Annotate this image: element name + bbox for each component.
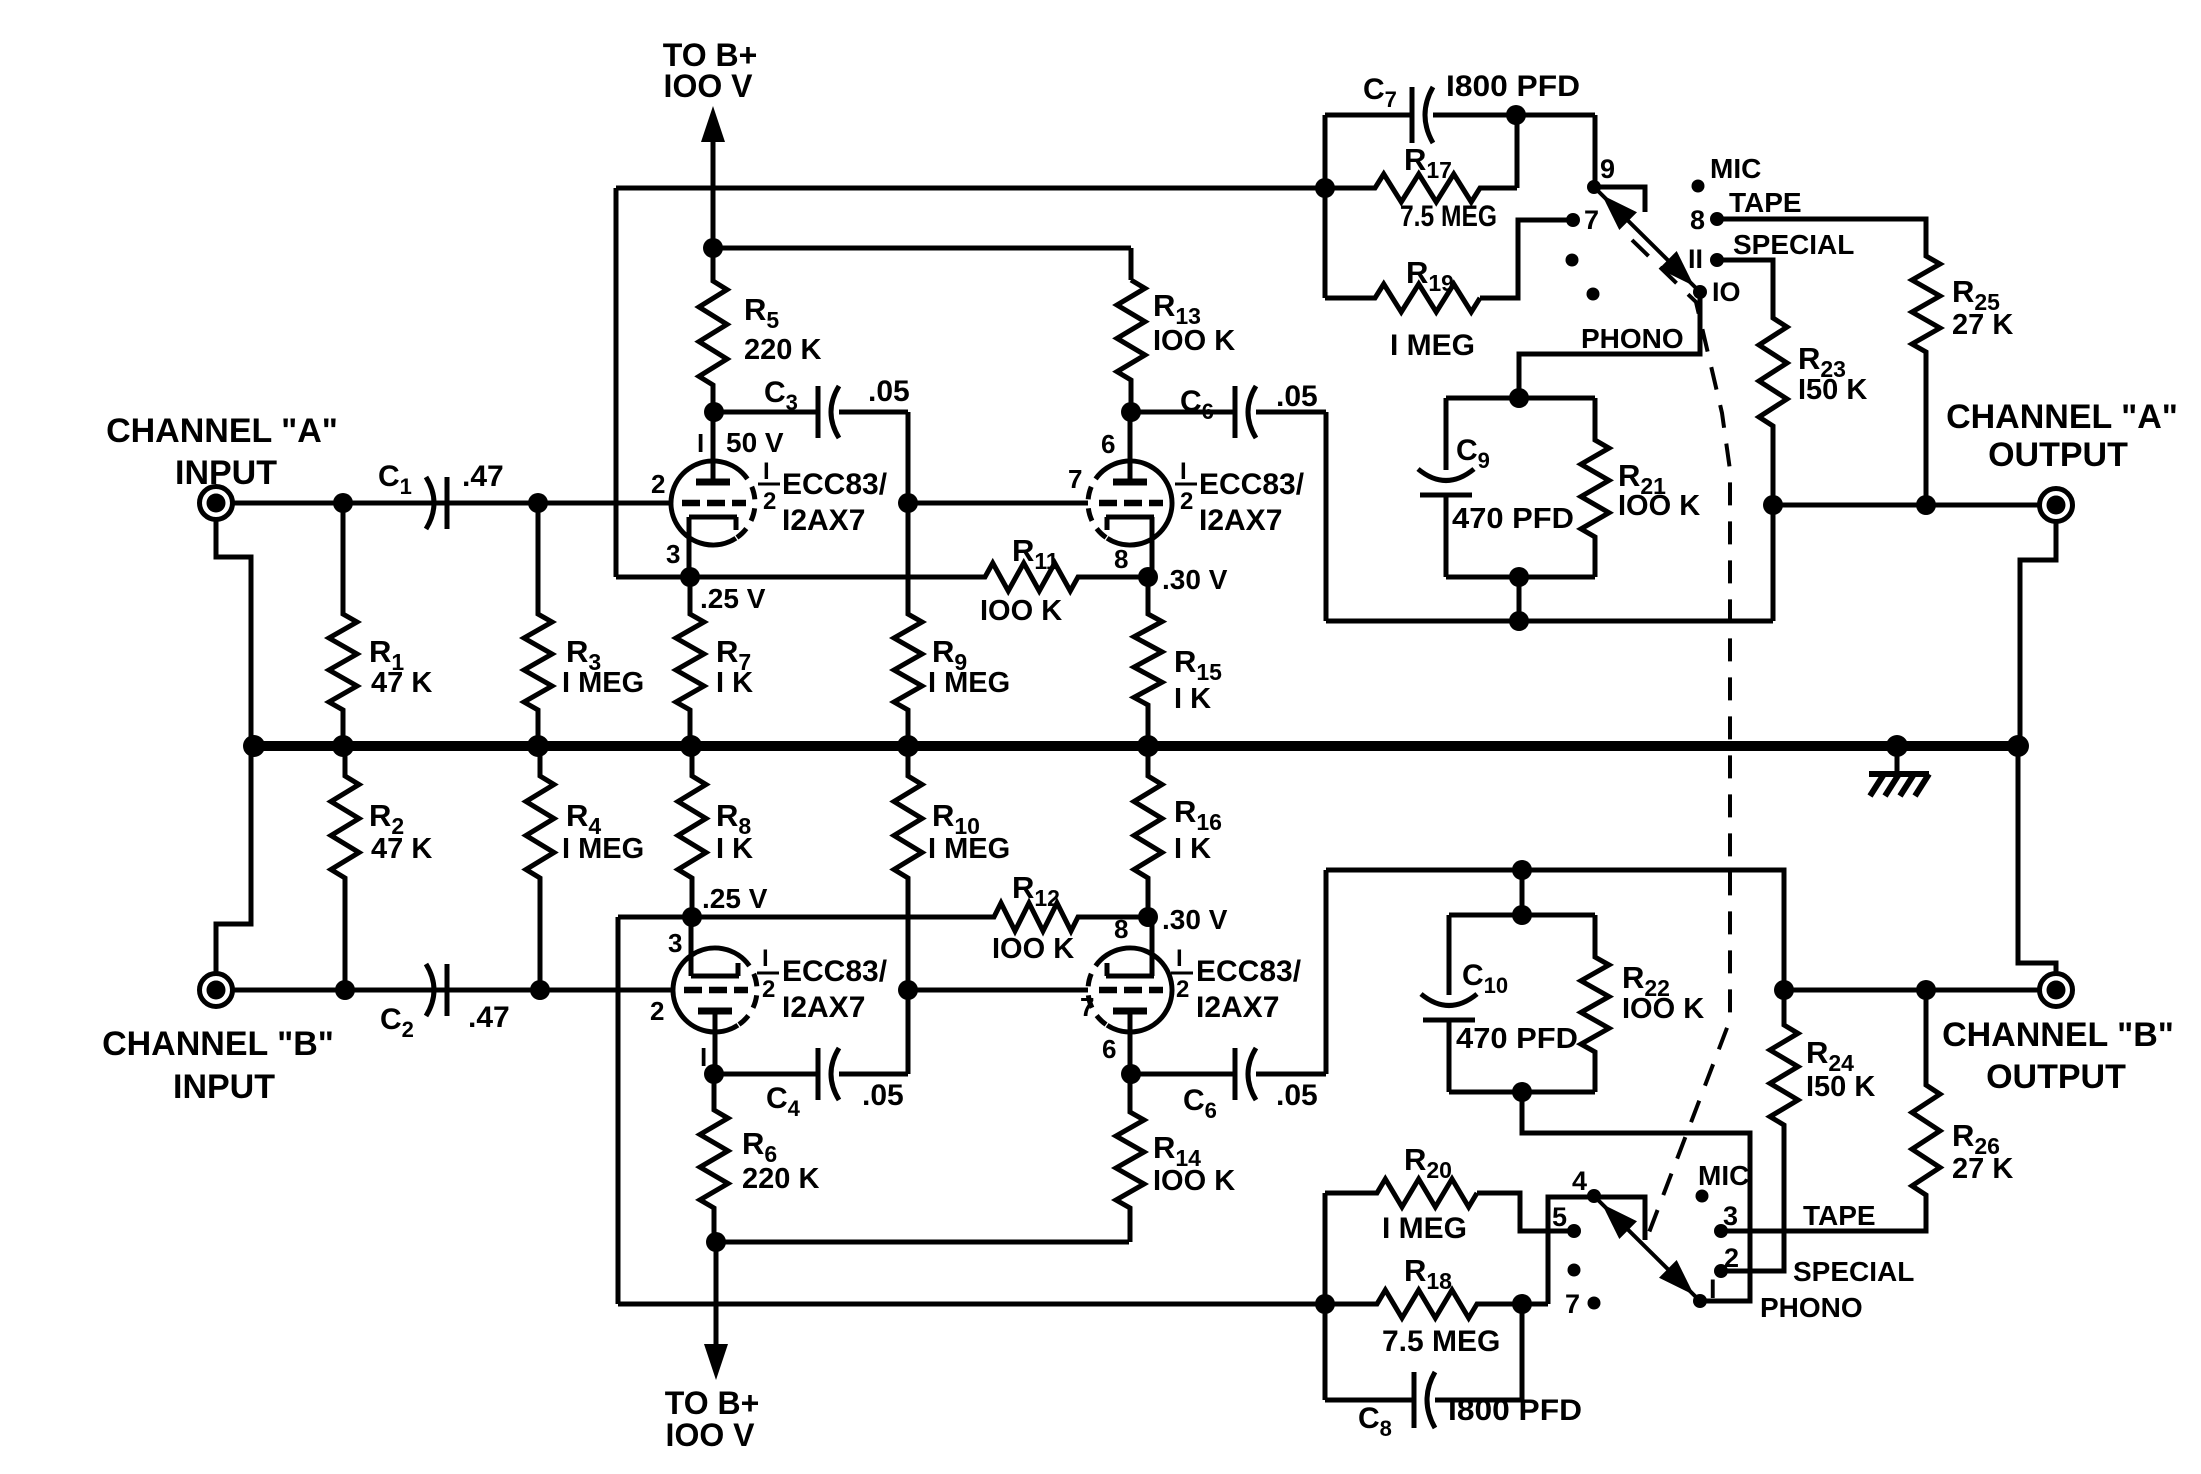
label C2 bbox=[380, 1003, 414, 1042]
label R6 value 220K bbox=[742, 1163, 819, 1195]
switch S1B contact 5 bbox=[1567, 1224, 1581, 1238]
label C10 value 470PFD bbox=[1456, 1023, 1578, 1055]
pin 2 V2A bbox=[650, 996, 664, 1026]
label C6 (B) bbox=[1183, 1084, 1217, 1123]
label C8 value 1800 PFD bbox=[1448, 1394, 1582, 1427]
label TAPE (B) bbox=[1803, 1200, 1876, 1231]
wire SPECIAL B to R24 bbox=[1721, 1125, 1784, 1271]
switch S1A contact MIC bbox=[1692, 180, 1705, 193]
label R8 bbox=[716, 798, 751, 839]
node cathode V1A (.25V) bbox=[680, 567, 700, 587]
wire feedback top rail A bbox=[616, 186, 1325, 191]
resistor R12 bbox=[984, 903, 1085, 931]
label C3 value .05 bbox=[868, 375, 910, 408]
node gnd symbol tap bbox=[1886, 735, 1908, 757]
node rail B / C10 stub bbox=[1512, 860, 1532, 880]
wire output rail A bbox=[1773, 503, 2040, 508]
resistor R13 bbox=[1117, 280, 1145, 412]
label C1 bbox=[378, 460, 412, 499]
label R13 value 100K bbox=[1153, 325, 1235, 357]
tube V2A cathode bbox=[691, 917, 739, 976]
svg-text:.47: .47 bbox=[462, 460, 504, 493]
svg-text:IOO K: IOO K bbox=[1153, 325, 1235, 357]
label contact 9 bbox=[1600, 154, 1615, 184]
svg-text:.30 V: .30 V bbox=[1162, 564, 1228, 595]
switch S1B contact 2 SPECIAL bbox=[1714, 1264, 1728, 1278]
label R15 bbox=[1174, 644, 1222, 685]
svg-text:I800 PFD: I800 PFD bbox=[1446, 70, 1580, 103]
wire B+ rail to R13 (plate supply A) bbox=[713, 248, 1131, 280]
svg-text:27 K: 27 K bbox=[1952, 309, 2013, 341]
switch S1A bracket bbox=[1594, 187, 1645, 212]
svg-text:ECC83/: ECC83/ bbox=[782, 468, 888, 501]
svg-text:.05: .05 bbox=[868, 375, 910, 408]
wire TAPE A to R25 bbox=[1722, 219, 1926, 256]
node gnd R9/R10 bbox=[897, 735, 919, 757]
svg-text:47 K: 47 K bbox=[371, 667, 432, 699]
label SPECIAL (A) bbox=[1733, 229, 1854, 260]
resistor R15 bbox=[1134, 577, 1162, 746]
label R2 value 47K bbox=[371, 833, 432, 865]
svg-text:3: 3 bbox=[666, 539, 680, 569]
wire grid V1B bbox=[908, 501, 1088, 506]
wire C10/R22 box bottom bbox=[1449, 1090, 1595, 1095]
label C7 bbox=[1363, 73, 1397, 112]
label C1 value .47 bbox=[462, 460, 504, 493]
switch S1B contact 1 PHONO bbox=[1693, 1294, 1707, 1308]
wire R18 box left vertical bbox=[1323, 1193, 1328, 1400]
resistor R2 bbox=[331, 746, 359, 990]
svg-text:I MEG: I MEG bbox=[928, 833, 1010, 865]
node grid V1B / R9 bbox=[898, 493, 918, 513]
label TO B+ 100V top bbox=[663, 37, 758, 104]
label R3 value 1MEG bbox=[562, 667, 644, 699]
wire C10 bottom to PHONO B bbox=[1522, 1092, 1750, 1301]
svg-text:.30 V: .30 V bbox=[1162, 904, 1228, 935]
label V1A ECC83/12AX7 bbox=[782, 468, 888, 537]
label R2 bbox=[369, 798, 404, 839]
svg-text:INPUT: INPUT bbox=[173, 1068, 275, 1106]
resistor R8 bbox=[678, 746, 706, 917]
label R19 bbox=[1406, 255, 1454, 296]
connector J2 CHANNEL B INPUT bbox=[200, 974, 233, 1007]
label contact 3 bbox=[1723, 1201, 1738, 1231]
tube V1B plate lead bbox=[1113, 412, 1147, 482]
node C9/R21 top bbox=[1509, 388, 1529, 408]
svg-text:2: 2 bbox=[651, 469, 665, 499]
label TO B+ 100V bottom bbox=[665, 1385, 760, 1453]
label R15 value 1K bbox=[1174, 683, 1211, 715]
resistor R18 bbox=[1325, 1290, 1548, 1318]
svg-text:7.5 MEG: 7.5 MEG bbox=[1400, 200, 1497, 233]
pin 2 V1A bbox=[651, 469, 665, 499]
wire lower rail B bbox=[618, 1302, 1325, 1307]
svg-text:MIC: MIC bbox=[1710, 153, 1761, 184]
svg-text:I800 PFD: I800 PFD bbox=[1448, 1394, 1582, 1427]
switch S1B arm arrowheads bbox=[1602, 1204, 1694, 1295]
svg-text:IOO K: IOO K bbox=[992, 933, 1074, 965]
label V1A 1/2 bbox=[758, 458, 780, 515]
label SPECIAL (B) bbox=[1793, 1256, 1914, 1287]
wire input A to C1 bbox=[233, 501, 671, 506]
svg-text:CHANNEL "A": CHANNEL "A" bbox=[106, 412, 338, 450]
label contact 2 bbox=[1724, 1243, 1739, 1273]
switch S1A wiper arm bbox=[1594, 187, 1700, 292]
connector J4 CHANNEL B OUTPUT bbox=[2040, 974, 2073, 1007]
label V1B 1/2 bbox=[1175, 458, 1197, 515]
svg-text:4: 4 bbox=[1572, 1166, 1587, 1196]
resistor R21 bbox=[1581, 398, 1609, 577]
label R11 bbox=[1012, 533, 1059, 574]
svg-text:7: 7 bbox=[1068, 464, 1082, 494]
label R20 value 1MEG bbox=[1382, 1212, 1467, 1245]
label C3 bbox=[764, 376, 798, 415]
svg-text:I MEG: I MEG bbox=[1382, 1212, 1467, 1245]
label contact 7 bbox=[1584, 205, 1599, 235]
label C8 bbox=[1358, 1402, 1392, 1441]
svg-text:50 V: 50 V bbox=[726, 427, 784, 458]
label R6 bbox=[742, 1126, 777, 1167]
wire C9/R21 box bottom bbox=[1446, 575, 1595, 580]
resistor R9 bbox=[894, 503, 922, 746]
label R5 value 220K bbox=[744, 334, 821, 366]
svg-text:ECC83/: ECC83/ bbox=[1199, 468, 1305, 501]
label R21 bbox=[1618, 458, 1666, 499]
node C2 out / R4 junction bbox=[530, 980, 550, 1000]
resistor R23 bbox=[1759, 260, 1787, 621]
wire C7 left vertical bbox=[1323, 115, 1328, 298]
node output B / R26 bbox=[1916, 980, 1936, 1000]
svg-text:.05: .05 bbox=[1276, 380, 1318, 413]
switch S1B contact 7 bbox=[1588, 1297, 1601, 1310]
svg-text:IOO K: IOO K bbox=[1618, 490, 1700, 522]
dashed gang line (switch coupling) bbox=[1632, 240, 1730, 1243]
switch S1B contact 3 TAPE bbox=[1714, 1224, 1728, 1238]
svg-text:I2AX7: I2AX7 bbox=[1196, 991, 1279, 1024]
wire R11 to cathode V1B bbox=[1085, 575, 1148, 580]
svg-text:OUTPUT: OUTPUT bbox=[1986, 1058, 2126, 1096]
resistor R14 bbox=[1116, 1074, 1144, 1242]
pin 3 V1A bbox=[666, 539, 680, 569]
node output A / R25 bbox=[1916, 495, 1936, 515]
wire R19 to switch contact 7 bbox=[1480, 220, 1573, 298]
node cathode V2B (.30V) bbox=[1138, 907, 1158, 927]
label V2B 1/2 bbox=[1171, 945, 1193, 1003]
label C4 bbox=[766, 1082, 801, 1121]
svg-text:IOO K: IOO K bbox=[1622, 993, 1704, 1025]
label contact 5 bbox=[1552, 1202, 1567, 1232]
capacitor C8 bbox=[1325, 1372, 1522, 1428]
svg-text:7: 7 bbox=[1080, 992, 1094, 1022]
label contact 4 bbox=[1572, 1166, 1587, 1196]
label R10 value 1MEG bbox=[928, 833, 1010, 865]
label R14 value 100K bbox=[1153, 1165, 1235, 1197]
svg-text:ECC83/: ECC83/ bbox=[782, 955, 888, 988]
svg-text:3: 3 bbox=[1723, 1201, 1738, 1231]
label R23 bbox=[1798, 341, 1846, 382]
switch S1A contact 9 bbox=[1587, 180, 1601, 194]
svg-text:TO B+: TO B+ bbox=[665, 1385, 760, 1421]
label R1 value 47K bbox=[371, 667, 432, 699]
svg-text:2: 2 bbox=[762, 976, 775, 1003]
label R18 value 7.5 MEG bbox=[1382, 1325, 1500, 1358]
label R25 bbox=[1952, 274, 2000, 315]
node C7 / contact 9 wire bbox=[1506, 105, 1526, 125]
svg-text:I MEG: I MEG bbox=[562, 833, 644, 865]
label R12 value 100K bbox=[992, 933, 1074, 965]
pin 8 V1B bbox=[1114, 544, 1128, 574]
label C9 bbox=[1456, 434, 1490, 473]
wire feedback vertical A bbox=[614, 188, 619, 577]
wire ground bus bbox=[254, 741, 2020, 751]
wire output A shield bbox=[2020, 521, 2056, 744]
resistor R1 bbox=[329, 503, 357, 746]
wire R20 to contact 5 bbox=[1477, 1193, 1574, 1231]
capacitor C10 bbox=[1421, 915, 1477, 1092]
svg-text:I2AX7: I2AX7 bbox=[1199, 504, 1282, 537]
tube V2B plate lead bbox=[1113, 1011, 1147, 1074]
pin 1 V2A bbox=[700, 1042, 707, 1072]
tube V2A 1/2 ECC83/12AX7 bbox=[673, 948, 757, 1032]
wire cathode rail A bbox=[616, 575, 975, 580]
wire SPECIAL A to R23 bbox=[1722, 260, 1773, 318]
label R7 value 1K bbox=[716, 667, 753, 699]
svg-text:ECC83/: ECC83/ bbox=[1196, 955, 1302, 988]
node gnd R15/R16 bbox=[1137, 735, 1159, 757]
wire cathode rail B bbox=[618, 915, 984, 920]
svg-text:PHONO: PHONO bbox=[1760, 1292, 1863, 1323]
tube V2B 1/2 ECC83/12AX7 bbox=[1088, 948, 1172, 1032]
label R20 bbox=[1404, 1142, 1452, 1183]
tube V1A plate lead bbox=[696, 412, 730, 482]
wire C9/R21 box top bbox=[1446, 396, 1595, 401]
label R16 value 1K bbox=[1174, 833, 1211, 865]
node input B / R2 junction bbox=[335, 980, 355, 1000]
power TO B+ 100V (top arrow) bbox=[701, 106, 725, 248]
tube V2A plate lead bbox=[698, 1011, 732, 1074]
svg-text:2: 2 bbox=[763, 488, 776, 515]
svg-text:I: I bbox=[763, 458, 770, 485]
label MIC (A) bbox=[1710, 153, 1761, 184]
svg-text:I: I bbox=[1176, 945, 1183, 972]
capacitor C1 bbox=[343, 477, 538, 529]
label contact 10 bbox=[1712, 277, 1741, 307]
pin 1 V1A bbox=[697, 428, 704, 458]
svg-text:I K: I K bbox=[716, 833, 753, 865]
tube V2B cathode bbox=[1106, 917, 1154, 976]
label V2B ECC83/12AX7 bbox=[1196, 955, 1302, 1024]
svg-text:8: 8 bbox=[1690, 205, 1705, 235]
resistor R7 bbox=[676, 577, 704, 746]
svg-text:.05: .05 bbox=[862, 1079, 904, 1112]
resistor R17 bbox=[1325, 115, 1517, 202]
tube V1B 1/2 ECC83/12AX7 bbox=[1088, 461, 1172, 545]
switch S1A contact 8 TAPE bbox=[1710, 212, 1724, 226]
tube V1B cathode bbox=[1106, 517, 1154, 577]
label V2A 1/2 bbox=[757, 945, 779, 1003]
node R18 / C8 junction bbox=[1512, 1294, 1532, 1314]
label C7 value 1800 PFD bbox=[1446, 70, 1580, 103]
svg-text:CHANNEL "A": CHANNEL "A" bbox=[1946, 398, 2178, 436]
connector J1 CHANNEL A INPUT bbox=[200, 487, 233, 520]
label R4 bbox=[566, 798, 601, 839]
svg-text:MIC: MIC bbox=[1698, 1160, 1749, 1191]
resistor R19 bbox=[1325, 284, 1480, 312]
wire input A shield bbox=[216, 520, 251, 973]
svg-text:SPECIAL: SPECIAL bbox=[1793, 1256, 1914, 1287]
svg-text:IOO K: IOO K bbox=[1153, 1165, 1235, 1197]
svg-text:I MEG: I MEG bbox=[928, 667, 1010, 699]
svg-text:2: 2 bbox=[1176, 976, 1189, 1003]
node gnd output shields bbox=[2007, 735, 2029, 757]
node gnd R1/R2 bbox=[332, 735, 354, 757]
resistor R16 bbox=[1134, 746, 1162, 917]
svg-text:I K: I K bbox=[1174, 683, 1211, 715]
switch S1A unused contacts bbox=[1566, 254, 1600, 301]
pin 8 V2B bbox=[1114, 914, 1128, 944]
label MIC (B) bbox=[1698, 1160, 1749, 1191]
label R7 bbox=[716, 634, 751, 675]
svg-text:2: 2 bbox=[1180, 488, 1193, 515]
label R12 bbox=[1012, 870, 1060, 911]
resistor R11 bbox=[975, 563, 1085, 591]
capacitor C7 bbox=[1325, 87, 1516, 143]
label R17 value 7.5 MEG bbox=[1400, 200, 1497, 233]
svg-text:8: 8 bbox=[1114, 914, 1128, 944]
wire grid V2B bbox=[908, 988, 1088, 993]
power TO B+ 100V (bottom arrow) bbox=[704, 1242, 728, 1380]
wire lower rail A bbox=[1326, 619, 1773, 624]
node C10/R22 bottom bbox=[1512, 1082, 1532, 1102]
svg-text:5: 5 bbox=[1552, 1202, 1567, 1232]
switch S1B wiper arm bbox=[1594, 1196, 1700, 1301]
svg-text:SPECIAL: SPECIAL bbox=[1733, 229, 1854, 260]
label R25 value 27K bbox=[1952, 309, 2013, 341]
label R14 bbox=[1153, 1130, 1201, 1171]
label R26 value 27K bbox=[1952, 1153, 2013, 1185]
node output B / R24 bbox=[1774, 980, 1794, 1000]
node plate V1A / C3 bbox=[704, 402, 724, 422]
label C6 (B) value .05 bbox=[1276, 1079, 1318, 1112]
svg-text:470 PFD: 470 PFD bbox=[1456, 1023, 1578, 1055]
svg-text:27 K: 27 K bbox=[1952, 1153, 2013, 1185]
tube V1A 1/2 ECC83/12AX7 bbox=[671, 461, 755, 545]
wire C7 to switch contact 9 bbox=[1516, 115, 1595, 187]
capacitor C3 bbox=[714, 386, 908, 503]
svg-text:2: 2 bbox=[650, 996, 664, 1026]
node feedback rail A / R17 bbox=[1315, 178, 1335, 198]
wire input B to C2 bbox=[233, 988, 673, 993]
label C9 value 470 PFD bbox=[1452, 503, 1574, 535]
svg-text:IOO V: IOO V bbox=[664, 68, 754, 104]
label C4 value .05 bbox=[862, 1079, 904, 1112]
svg-text:I: I bbox=[762, 945, 769, 972]
node grid V2B / R10 bbox=[898, 980, 918, 1000]
svg-text:I K: I K bbox=[1174, 833, 1211, 865]
resistor R25 bbox=[1912, 219, 1940, 505]
wire C10/R22 box top bbox=[1449, 913, 1595, 918]
svg-text:IOO V: IOO V bbox=[666, 1417, 756, 1453]
svg-text:.25 V: .25 V bbox=[702, 883, 768, 914]
resistor R5 bbox=[699, 248, 727, 412]
svg-text:470 PFD: 470 PFD bbox=[1452, 503, 1574, 535]
resistor R10 bbox=[894, 746, 922, 990]
label R22 bbox=[1622, 960, 1670, 1001]
label 50V bbox=[726, 427, 784, 458]
label R9 value 1MEG bbox=[928, 667, 1010, 699]
svg-text:220 K: 220 K bbox=[744, 334, 821, 366]
switch S1A contact 7 bbox=[1566, 213, 1580, 227]
wire C8 right vertical bbox=[1520, 1304, 1525, 1400]
svg-text:.05: .05 bbox=[1276, 1079, 1318, 1112]
connector J3 CHANNEL A OUTPUT bbox=[2040, 489, 2073, 522]
label contact 8 bbox=[1690, 205, 1705, 235]
wire C10 stub bbox=[1520, 870, 1525, 915]
label R21 value 100K bbox=[1618, 490, 1700, 522]
pin 7 V1B bbox=[1068, 464, 1082, 494]
svg-text:7.5 MEG: 7.5 MEG bbox=[1382, 1325, 1500, 1358]
svg-text:I MEG: I MEG bbox=[562, 667, 644, 699]
resistor R26 bbox=[1912, 990, 1940, 1231]
svg-text:OUTPUT: OUTPUT bbox=[1988, 436, 2128, 474]
label C6 (A) bbox=[1180, 385, 1214, 424]
node C10/R22 top bbox=[1512, 905, 1532, 925]
svg-text:IOO K: IOO K bbox=[980, 595, 1062, 627]
svg-text:I: I bbox=[1709, 1274, 1717, 1304]
label C10 bbox=[1462, 959, 1508, 998]
svg-text:3: 3 bbox=[668, 928, 682, 958]
label contact 11 bbox=[1688, 244, 1703, 274]
node gnd R3/R4 bbox=[527, 735, 549, 757]
wire R18 link to contact 4 row bbox=[1548, 1197, 1645, 1304]
svg-text:220 K: 220 K bbox=[742, 1163, 819, 1195]
label R10 bbox=[932, 798, 980, 839]
svg-text:CHANNEL "B": CHANNEL "B" bbox=[102, 1025, 334, 1063]
pin 6 V1B bbox=[1101, 429, 1115, 459]
switch S1A arm arrowheads bbox=[1602, 195, 1694, 286]
resistor R24 bbox=[1770, 990, 1798, 1271]
label CHANNEL "A" INPUT bbox=[106, 412, 338, 492]
svg-text:.47: .47 bbox=[468, 1001, 510, 1034]
label R9 bbox=[932, 634, 967, 675]
pin 7 V2B bbox=[1080, 992, 1094, 1022]
node output A / R23 bbox=[1763, 495, 1783, 515]
svg-text:6: 6 bbox=[1102, 1034, 1116, 1064]
label PHONO (B) bbox=[1760, 1292, 1863, 1323]
wire plate supply rail B bbox=[716, 1240, 1129, 1245]
label V2A ECC83/12AX7 bbox=[782, 955, 888, 1024]
label CHANNEL "A" OUTPUT bbox=[1946, 398, 2178, 474]
svg-text:I MEG: I MEG bbox=[1390, 329, 1475, 362]
capacitor C6 (channel B) bbox=[1131, 870, 1326, 1100]
resistor R4 bbox=[526, 746, 554, 990]
label R24 bbox=[1806, 1035, 1854, 1076]
label .25V (A) bbox=[700, 583, 766, 614]
label R5 bbox=[744, 292, 779, 333]
node B+ / R5 junction bbox=[703, 238, 723, 258]
svg-text:CHANNEL "B": CHANNEL "B" bbox=[1942, 1016, 2174, 1054]
label R13 bbox=[1153, 288, 1201, 329]
pin 3 V2A bbox=[668, 928, 682, 958]
svg-text:I50 K: I50 K bbox=[1806, 1071, 1875, 1103]
label R24 value 150K bbox=[1806, 1071, 1875, 1103]
svg-text:6: 6 bbox=[1101, 429, 1115, 459]
label R3 bbox=[566, 634, 601, 675]
label .30V (B) bbox=[1162, 904, 1228, 935]
node plate V2B / C6 bbox=[1121, 1064, 1141, 1084]
switch S1B unused contact bbox=[1568, 1264, 1581, 1277]
label R19 value 1MEG bbox=[1390, 329, 1475, 362]
